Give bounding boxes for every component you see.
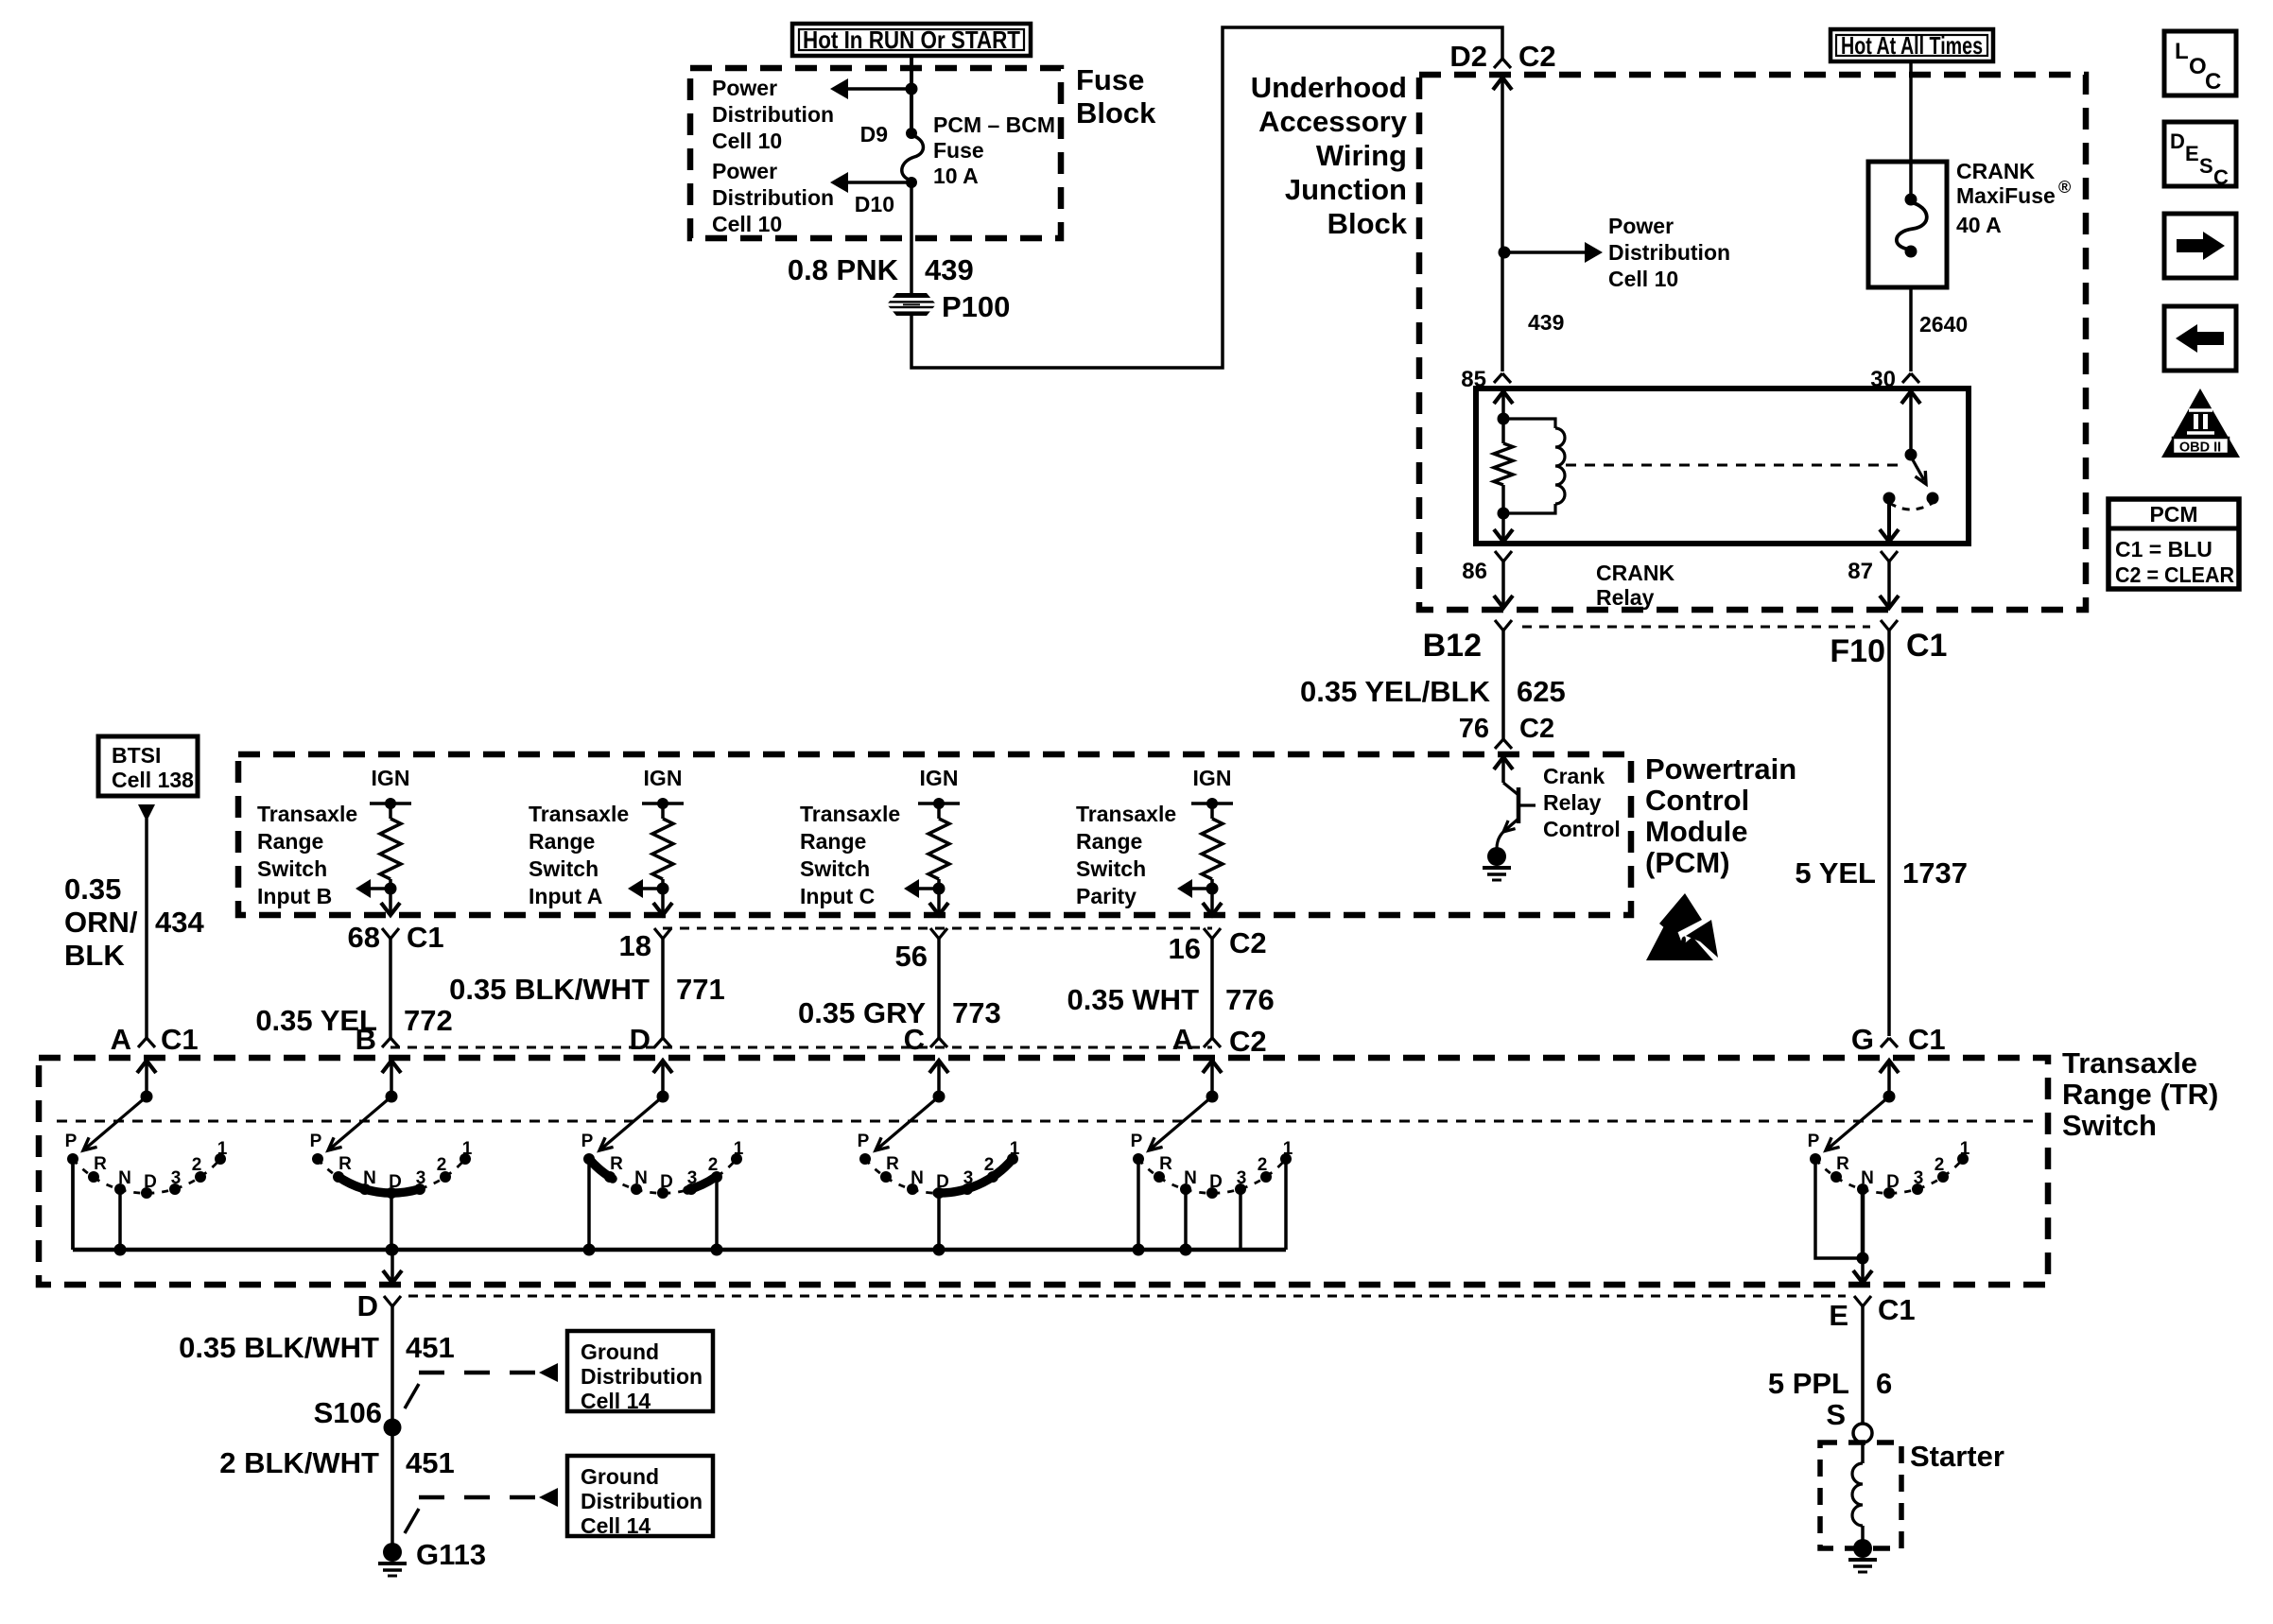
svg-text:P: P xyxy=(858,1132,870,1151)
arrow to Power Distribution Cell 10 (D9) xyxy=(830,78,911,99)
wire: S-A(parity) contact 1 to bus xyxy=(1284,1159,1288,1250)
TR switch element S-D: pivot and wiper xyxy=(599,1061,672,1150)
wire 776: pin 16 to TR pin A xyxy=(1210,939,1214,1038)
svg-text:Cell 138: Cell 138 xyxy=(112,768,194,792)
svg-text:10 A: 10 A xyxy=(933,164,979,188)
svg-text:40 A: 40 A xyxy=(1956,213,2002,237)
svg-text:3: 3 xyxy=(1914,1168,1924,1188)
svg-text:771: 771 xyxy=(676,973,725,1006)
wire: TR switch output D xyxy=(383,1250,402,1283)
pin B12 label and fork xyxy=(1423,620,1512,664)
svg-text:Transaxle: Transaxle xyxy=(1076,802,1176,826)
svg-text:D: D xyxy=(144,1172,157,1192)
svg-text:C2: C2 xyxy=(1229,1025,1267,1058)
svg-text:N: N xyxy=(1861,1168,1874,1188)
pin E C1 labels and fork xyxy=(1829,1293,1915,1332)
wire 2640: fuse to relay pin 30 xyxy=(1909,287,1913,371)
wire: Input C output to pin xyxy=(929,889,948,915)
arrow to Power Distribution Cell 10 (D10) xyxy=(830,172,911,193)
wire: coil to pin 86 xyxy=(1494,513,1513,542)
svg-text:Block: Block xyxy=(1076,96,1156,130)
svg-text:0.35 YEL/BLK: 0.35 YEL/BLK xyxy=(1300,675,1491,708)
icon: OBD II symbol xyxy=(2161,389,2240,458)
svg-text:1: 1 xyxy=(1283,1139,1293,1159)
svg-text:Cell 14: Cell 14 xyxy=(581,1513,651,1538)
label box: Hot At All Times xyxy=(1831,29,1993,61)
fuse block dashed box xyxy=(690,68,1061,238)
svg-text:Distribution: Distribution xyxy=(1608,240,1730,265)
svg-text:68: 68 xyxy=(348,921,380,954)
svg-text:0.8 PNK: 0.8 PNK xyxy=(788,253,899,286)
reference box: Ground Distribution Cell 14 (upper) xyxy=(567,1331,713,1413)
Underhood Accessory Wiring Junction Block dashed box xyxy=(1419,75,2086,610)
svg-text:C1: C1 xyxy=(1906,628,1947,664)
svg-text:772: 772 xyxy=(404,1004,453,1037)
wire: P100 down, right, up to junction block xyxy=(911,27,1502,368)
svg-text:6: 6 xyxy=(1876,1367,1892,1400)
svg-text:5 YEL: 5 YEL xyxy=(1795,856,1876,890)
svg-text:56: 56 xyxy=(895,940,928,973)
svg-text:(PCM): (PCM) xyxy=(1645,846,1730,879)
node: bus to pin D junction xyxy=(387,1244,399,1256)
node: S-D 2 bus junction xyxy=(711,1244,723,1256)
pin F10 C1 labels and fork xyxy=(1830,620,1947,669)
svg-text:N: N xyxy=(634,1168,648,1188)
svg-text:1: 1 xyxy=(217,1139,228,1159)
svg-text:C2: C2 xyxy=(1229,926,1267,959)
svg-text:Powertrain: Powertrain xyxy=(1645,752,1796,786)
svg-text:C2: C2 xyxy=(1519,714,1554,744)
connector D2/C2 fork xyxy=(1494,59,1511,68)
fuse F1: PCM-BCM Fuse 10A xyxy=(902,128,924,188)
relay K1: CRANK Relay box xyxy=(1476,389,1969,544)
svg-text:Starter: Starter xyxy=(1910,1440,2004,1473)
svg-text:5 PPL: 5 PPL xyxy=(1768,1367,1849,1400)
svg-text:MaxiFuse: MaxiFuse xyxy=(1956,183,2056,208)
pin C label and fork xyxy=(904,1023,947,1056)
svg-text:G: G xyxy=(1851,1023,1874,1056)
svg-text:Cell 10: Cell 10 xyxy=(712,212,782,236)
svg-text:D9: D9 xyxy=(860,122,888,147)
PCM input: Transaxle Range Switch Input B xyxy=(370,766,411,819)
label: Powertrain Control Module (PCM) xyxy=(1645,752,1796,879)
transistor Q1: Crank Relay Control xyxy=(1494,757,1536,849)
svg-text:C: C xyxy=(904,1023,925,1056)
svg-text:2: 2 xyxy=(708,1155,719,1175)
svg-text:A: A xyxy=(1172,1023,1193,1056)
relay coil branch: pin 85 wire xyxy=(1494,391,1513,419)
wire label: 0.35 YEL/BLK 625 xyxy=(1300,675,1566,708)
svg-text:2 BLK/WHT: 2 BLK/WHT xyxy=(219,1446,379,1479)
TR switch element S-C: pivot and wiper xyxy=(876,1061,948,1150)
node: coil bottom xyxy=(1498,508,1510,520)
svg-text:Input C: Input C xyxy=(800,884,875,908)
svg-text:Range: Range xyxy=(800,829,866,854)
icon: LOC button xyxy=(2164,31,2236,95)
TR switch internal dashed line xyxy=(57,1120,2033,1123)
relay pin 87 label and fork xyxy=(1848,551,1898,584)
svg-text:Cell 10: Cell 10 xyxy=(1608,267,1678,291)
relay pin 85 fork and label xyxy=(1461,367,1511,392)
svg-text:Wiring: Wiring xyxy=(1316,139,1407,172)
reference box: Ground Distribution Cell 14 (lower) xyxy=(567,1456,713,1538)
dashed contact arc xyxy=(1889,503,1933,510)
resistor: Parity pull-up xyxy=(1202,819,1223,879)
svg-text:BLK: BLK xyxy=(64,939,125,972)
TR switch S-C: dashed contact arc xyxy=(865,1159,1013,1193)
svg-text:86: 86 xyxy=(1462,559,1487,584)
svg-text:S106: S106 xyxy=(314,1396,382,1429)
wire label: 0.35 GRY 773 xyxy=(798,996,1001,1029)
svg-text:1: 1 xyxy=(462,1139,473,1159)
svg-text:P: P xyxy=(310,1132,322,1151)
node: D9 feed junction xyxy=(906,83,918,95)
svg-text:D: D xyxy=(1209,1172,1223,1192)
wire: 86 to B12 xyxy=(1494,561,1513,608)
arrow: Input C sense tap xyxy=(904,879,939,898)
wire label: 0.35 ORN/BLK 434 xyxy=(64,872,204,972)
svg-text:Switch: Switch xyxy=(1076,856,1146,881)
svg-text:O: O xyxy=(2189,54,2207,79)
connector line B-A (thin dashed) xyxy=(390,1046,1212,1049)
node: Input C sense junction xyxy=(933,879,946,895)
svg-text:Range (TR): Range (TR) xyxy=(2062,1078,2218,1111)
svg-text:A: A xyxy=(111,1023,131,1056)
svg-text:Distribution: Distribution xyxy=(712,185,834,210)
svg-text:C1: C1 xyxy=(1878,1293,1916,1326)
pin G C1 labels and fork xyxy=(1851,1023,1946,1056)
wire: Parity output to pin xyxy=(1203,889,1222,915)
wire 434: BTSI to TR pin A xyxy=(145,819,148,1038)
svg-text:Relay: Relay xyxy=(1596,585,1655,610)
svg-text:L: L xyxy=(2175,39,2189,64)
wire label: 0.35 BLK/WHT 771 xyxy=(449,973,725,1006)
node: splice S106 xyxy=(384,1419,402,1437)
svg-text:S: S xyxy=(2199,154,2213,178)
svg-text:F10: F10 xyxy=(1830,633,1885,669)
svg-text:N: N xyxy=(1184,1168,1197,1188)
wire: S-G contact N to output xyxy=(1861,1189,1865,1258)
arrow: Input A sense tap xyxy=(628,879,663,898)
svg-text:D: D xyxy=(630,1023,651,1056)
wire 1737: F10 to TR switch pin G xyxy=(1887,631,1891,1036)
svg-text:Module: Module xyxy=(1645,815,1748,848)
svg-text:C1: C1 xyxy=(1908,1023,1946,1056)
TR switch S-C: contact dots and labels xyxy=(858,1132,1020,1199)
relay coil resistor element xyxy=(1494,443,1513,485)
connector P100 (grommet) xyxy=(887,293,936,316)
svg-text:B12: B12 xyxy=(1423,628,1482,664)
svg-text:OBD II: OBD II xyxy=(2179,441,2221,456)
svg-text:C2 = CLEAR: C2 = CLEAR xyxy=(2115,562,2234,587)
svg-text:Ground: Ground xyxy=(581,1339,659,1364)
pin labels D2 / C2 xyxy=(1449,40,1555,73)
wire label: 0.35 YEL 772 xyxy=(255,1004,452,1037)
dashed actuation link xyxy=(1566,464,1902,467)
wire 625: B12 to PCM pin 76 xyxy=(1501,631,1505,739)
wire: S-D contact P to bus xyxy=(587,1159,591,1250)
wire: Input A output to pin xyxy=(653,889,672,915)
svg-text:S: S xyxy=(1826,1398,1846,1431)
svg-text:R: R xyxy=(1836,1154,1849,1174)
wire: TR switch output E xyxy=(1853,1258,1872,1283)
node: Input A sense junction xyxy=(657,879,669,895)
svg-text:C: C xyxy=(2205,69,2221,95)
svg-text:Transaxle: Transaxle xyxy=(800,802,900,826)
svg-text:Switch: Switch xyxy=(2062,1109,2157,1142)
svg-text:434: 434 xyxy=(155,906,204,939)
svg-text:CRANK: CRANK xyxy=(1956,159,2035,183)
wire label: 5 YEL 1737 xyxy=(1795,856,1968,890)
svg-text:R: R xyxy=(610,1154,623,1174)
arrow from BTSI xyxy=(138,804,155,821)
PCM input: Transaxle Range Switch Input C xyxy=(918,766,960,819)
svg-text:1: 1 xyxy=(734,1139,744,1159)
svg-text:BTSI: BTSI xyxy=(112,743,161,768)
wire label: 0.35 BLK/WHT 451 xyxy=(179,1331,455,1364)
node: S-A(parity) N bus junction xyxy=(1180,1244,1192,1256)
relay armature (open contact) xyxy=(1911,457,1926,484)
TR switch element S-A(parity): pivot and wiper xyxy=(1149,1061,1222,1150)
svg-text:D: D xyxy=(357,1289,378,1322)
TR switch S-A(BTSI): contact dots and labels xyxy=(65,1132,228,1199)
svg-text:Input A: Input A xyxy=(529,884,602,908)
legend box: PCM connectors xyxy=(2108,499,2239,589)
node: S-B D bus junction xyxy=(386,1244,398,1256)
svg-text:Transaxle: Transaxle xyxy=(529,802,629,826)
wire: Input B output to pin xyxy=(381,889,400,915)
Powertrain Control Module dashed box xyxy=(238,754,1631,915)
TR switch S-A(parity): dashed contact arc xyxy=(1138,1159,1286,1193)
svg-text:IGN: IGN xyxy=(372,766,410,790)
svg-text:Range: Range xyxy=(529,829,595,854)
svg-text:87: 87 xyxy=(1848,559,1873,584)
svg-text:439: 439 xyxy=(925,253,974,286)
wire: S-A(BTSI) contact P to bus xyxy=(71,1159,75,1250)
connector line 18-16 (thin dashed) xyxy=(663,927,1212,930)
PCM input: Transaxle Range Switch Parity xyxy=(1191,766,1233,819)
svg-text:0.35 BLK/WHT: 0.35 BLK/WHT xyxy=(179,1331,379,1364)
svg-text:16: 16 xyxy=(1169,932,1201,965)
svg-text:773: 773 xyxy=(952,996,1001,1029)
pin A C1 labels and fork (TR) xyxy=(111,1023,199,1056)
wire: S-B contact D to bus xyxy=(390,1193,393,1250)
node: contact NC stub xyxy=(1927,492,1939,505)
relay pin 30 fork and label xyxy=(1870,367,1919,392)
node: Parity sense junction xyxy=(1206,879,1219,895)
svg-text:Power: Power xyxy=(712,76,777,100)
svg-text:N: N xyxy=(118,1168,131,1188)
svg-text:2: 2 xyxy=(437,1155,447,1175)
svg-text:IGN: IGN xyxy=(644,766,683,790)
svg-text:G113: G113 xyxy=(416,1538,486,1571)
svg-text:Transaxle: Transaxle xyxy=(257,802,357,826)
wire 6: TR pin E to starter S xyxy=(1861,1306,1865,1424)
svg-text:Range: Range xyxy=(1076,829,1142,854)
wire 451: TR pin D to S106 xyxy=(390,1306,394,1427)
pin 56 label and fork xyxy=(895,928,947,973)
svg-text:Power: Power xyxy=(1608,214,1674,238)
svg-text:Hot At All Times: Hot At All Times xyxy=(1841,31,1983,60)
svg-text:451: 451 xyxy=(406,1446,455,1479)
pin 76 C2 labels and fork xyxy=(1459,714,1554,749)
svg-text:0.35 WHT: 0.35 WHT xyxy=(1067,983,1199,1016)
node: switch common xyxy=(1905,449,1917,461)
svg-text:Switch: Switch xyxy=(800,856,870,881)
svg-text:Accessory: Accessory xyxy=(1258,105,1408,138)
svg-text:2640: 2640 xyxy=(1919,312,1968,337)
svg-text:P: P xyxy=(581,1132,594,1151)
wire: S-C contact D to bus xyxy=(937,1193,941,1250)
svg-text:2: 2 xyxy=(1935,1155,1945,1175)
svg-text:Ground: Ground xyxy=(581,1464,659,1489)
node: S-C D bus junction xyxy=(933,1244,946,1256)
svg-text:D10: D10 xyxy=(855,192,894,216)
svg-text:Cell 14: Cell 14 xyxy=(581,1389,651,1413)
svg-text:625: 625 xyxy=(1517,675,1566,708)
wire: S-A(parity) contact N to bus xyxy=(1184,1189,1188,1250)
svg-text:C1 = BLU: C1 = BLU xyxy=(2115,537,2212,561)
svg-text:P: P xyxy=(1808,1132,1820,1151)
pin B label and fork xyxy=(356,1023,399,1056)
svg-text:Power: Power xyxy=(712,159,777,183)
svg-text:C2: C2 xyxy=(1518,40,1556,73)
wire label: 2 BLK/WHT 451 xyxy=(219,1446,455,1479)
svg-text:D: D xyxy=(660,1172,673,1192)
wire: contact 87 down xyxy=(1880,502,1899,542)
svg-text:2: 2 xyxy=(192,1155,202,1175)
wire: battery feed to CRANK MaxiFuse xyxy=(1909,61,1913,199)
wire: S-A(parity) contact P to bus xyxy=(1136,1159,1140,1250)
wire 451: S106 to G113 xyxy=(390,1427,394,1550)
TR switch S-G: dashed contact arc xyxy=(1815,1159,1963,1193)
svg-text:N: N xyxy=(911,1168,924,1188)
ground G113 xyxy=(383,1543,402,1562)
wire 439: fuse block to P100 xyxy=(910,182,913,294)
svg-text:3: 3 xyxy=(1237,1168,1247,1188)
pin D label and fork (TR output) xyxy=(357,1289,401,1322)
svg-text:R: R xyxy=(94,1154,107,1174)
svg-text:Distribution: Distribution xyxy=(581,1364,703,1389)
svg-text:Control: Control xyxy=(1543,817,1621,841)
wire 771: pin 18 to TR pin D xyxy=(661,939,665,1038)
svg-text:PCM: PCM xyxy=(2149,502,2197,527)
wire label: 0.8 PNK 439 xyxy=(788,253,974,286)
wire: S-G contact P to output xyxy=(1815,1159,1863,1258)
dashed branch to Ground Distribution (lower) xyxy=(405,1488,558,1533)
pin 68 C1 labels and fork xyxy=(348,921,444,954)
svg-text:C1: C1 xyxy=(161,1023,199,1056)
ground: transistor emitter xyxy=(1487,847,1506,866)
BTSI Cell 138 reference box xyxy=(98,736,198,796)
TR switch bus wire xyxy=(71,1159,75,1250)
TR switch element S-G: pivot and wiper xyxy=(1826,1061,1899,1150)
label: CRANK MaxiFuse 40 A xyxy=(1956,159,2071,237)
wire: D2 entry down to relay pin 85 xyxy=(1493,78,1512,371)
svg-text:3: 3 xyxy=(171,1168,182,1188)
TR switch S-D: contact dots and labels xyxy=(581,1132,744,1199)
resistor: Input A pull-up xyxy=(652,819,673,879)
svg-text:C1: C1 xyxy=(407,921,444,954)
svg-text:451: 451 xyxy=(406,1331,455,1364)
dashed branch to Ground Distribution (upper) xyxy=(405,1363,558,1408)
svg-text:R: R xyxy=(1159,1154,1172,1174)
svg-text:2: 2 xyxy=(1258,1155,1268,1175)
svg-text:C: C xyxy=(2213,165,2229,189)
svg-text:Block: Block xyxy=(1327,207,1408,240)
wire: 87 to F10 xyxy=(1880,561,1899,608)
Transaxle Range (TR) Switch dashed box xyxy=(39,1058,2048,1285)
TR switch S-B: dashed contact arc xyxy=(318,1159,465,1193)
wire label: 5 PPL 6 xyxy=(1768,1367,1892,1400)
node: S-A(BTSI) N bus junction xyxy=(114,1244,127,1256)
svg-text:R: R xyxy=(886,1154,899,1174)
arrow: Input B sense tap xyxy=(356,879,390,898)
svg-text:ORN/: ORN/ xyxy=(64,906,138,939)
label: Underhood Accessory Wiring Junction Block xyxy=(1251,71,1408,240)
TR switch element S-A(BTSI): pivot and wiper xyxy=(83,1061,156,1150)
svg-text:P: P xyxy=(65,1132,78,1151)
ESD sensitivity symbol xyxy=(1646,893,1718,960)
svg-text:E: E xyxy=(2185,142,2199,165)
node: coil top xyxy=(1498,413,1510,425)
svg-text:Junction: Junction xyxy=(1285,173,1407,206)
svg-text:CRANK: CRANK xyxy=(1596,561,1674,585)
svg-text:R: R xyxy=(338,1154,352,1174)
wire label: 0.35 WHT 776 xyxy=(1067,983,1274,1016)
svg-text:D: D xyxy=(1886,1172,1900,1192)
svg-text:776: 776 xyxy=(1225,983,1275,1016)
pin D label and fork xyxy=(630,1023,671,1056)
TR switch element S-B: pivot and wiper xyxy=(328,1061,401,1150)
TR switch S-D: closed contact arc xyxy=(589,1159,613,1179)
pin 16 C2 labels and fork xyxy=(1169,926,1267,965)
TR switch S-D: dashed contact arc xyxy=(589,1159,737,1193)
svg-text:Relay: Relay xyxy=(1543,790,1602,815)
wire: S-A(parity) contact 3 to bus xyxy=(1239,1189,1242,1250)
pin A C2 labels and fork xyxy=(1172,1023,1267,1058)
svg-text:D2: D2 xyxy=(1449,40,1487,73)
svg-text:76: 76 xyxy=(1459,714,1489,744)
PCM input: Transaxle Range Switch Input A xyxy=(642,766,684,819)
ground: starter solenoid xyxy=(1853,1539,1872,1558)
relay pin 86 label and fork xyxy=(1462,551,1512,584)
svg-text:P100: P100 xyxy=(942,290,1010,323)
TR switch S-B: contact dots and labels xyxy=(310,1132,473,1199)
svg-text:Cell 10: Cell 10 xyxy=(712,129,782,153)
TR switch S-D: closed contact arc xyxy=(687,1177,716,1190)
svg-text:Range: Range xyxy=(257,829,323,854)
TR switch S-G: contact dots and labels xyxy=(1808,1132,1970,1199)
svg-text:Transaxle: Transaxle xyxy=(2062,1046,2197,1080)
node: S-G output junction xyxy=(1857,1253,1869,1265)
svg-text:1737: 1737 xyxy=(1902,856,1968,890)
svg-text:D: D xyxy=(2170,130,2185,153)
node: contact 87 xyxy=(1883,492,1896,505)
svg-text:Distribution: Distribution xyxy=(581,1489,703,1513)
svg-text:E: E xyxy=(1829,1299,1848,1332)
resistor: Input C pull-up xyxy=(928,819,949,879)
connector S (ring terminal) xyxy=(1853,1424,1872,1443)
icon: next arrow button xyxy=(2164,214,2236,278)
connector line B12-F10 (thin dashed) xyxy=(1522,626,1870,629)
wire 772: pin 68 to TR pin B xyxy=(389,939,392,1038)
relay coil winding (parallel) xyxy=(1503,419,1565,513)
resistor: Input B pull-up xyxy=(380,819,401,879)
label box: Hot In RUN Or START xyxy=(792,24,1031,56)
pin 18 label and fork xyxy=(619,928,671,962)
svg-text:0.35 BLK/WHT: 0.35 BLK/WHT xyxy=(449,973,650,1006)
